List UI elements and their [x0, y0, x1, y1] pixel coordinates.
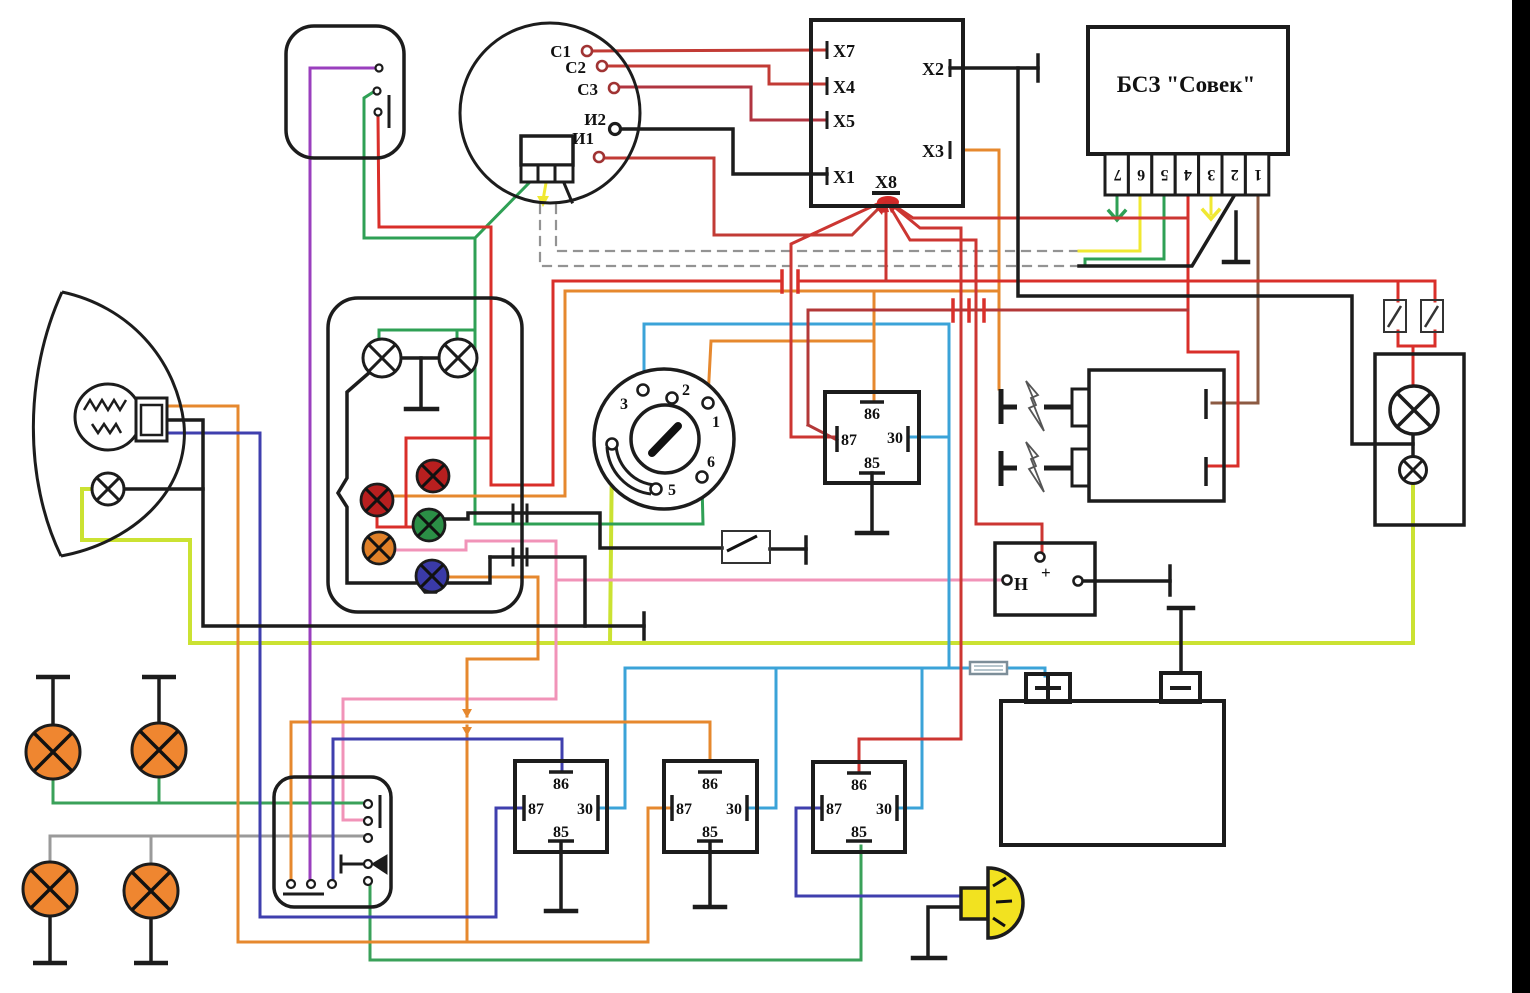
svg-text:БСЗ "Совек": БСЗ "Совек" — [1117, 72, 1256, 97]
svg-text:X7: X7 — [833, 41, 855, 61]
svg-text:1: 1 — [712, 414, 720, 431]
svg-text:86: 86 — [702, 776, 718, 793]
svg-text:C2: C2 — [565, 58, 586, 77]
svg-text:85: 85 — [553, 824, 569, 841]
svg-text:5: 5 — [1161, 166, 1169, 183]
svg-text:87: 87 — [826, 801, 842, 818]
svg-text:85: 85 — [864, 455, 880, 472]
svg-text:6: 6 — [1137, 166, 1145, 183]
svg-text:3: 3 — [1207, 166, 1215, 183]
svg-text:H: H — [1014, 574, 1028, 594]
svg-text:2: 2 — [682, 382, 690, 399]
svg-text:85: 85 — [702, 824, 718, 841]
svg-text:6: 6 — [707, 454, 715, 471]
svg-text:30: 30 — [577, 801, 593, 818]
svg-text:1: 1 — [1254, 166, 1262, 183]
svg-text:30: 30 — [887, 430, 903, 447]
svg-text:87: 87 — [676, 801, 692, 818]
svg-text:C3: C3 — [577, 80, 598, 99]
svg-text:87: 87 — [841, 432, 857, 449]
svg-text:86: 86 — [553, 776, 569, 793]
svg-text:И1: И1 — [572, 129, 594, 148]
svg-text:И2: И2 — [584, 110, 606, 129]
svg-text:87: 87 — [528, 801, 544, 818]
svg-text:X5: X5 — [833, 111, 855, 131]
svg-text:4: 4 — [1184, 166, 1192, 183]
svg-text:3: 3 — [620, 396, 628, 413]
svg-text:X4: X4 — [833, 77, 855, 97]
svg-text:30: 30 — [726, 801, 742, 818]
svg-text:30: 30 — [876, 801, 892, 818]
svg-text:85: 85 — [851, 824, 867, 841]
svg-text:86: 86 — [851, 777, 867, 794]
svg-text:X1: X1 — [833, 167, 855, 187]
svg-text:86: 86 — [864, 406, 880, 423]
svg-text:5: 5 — [668, 482, 676, 499]
svg-text:X3: X3 — [922, 141, 944, 161]
svg-text:7: 7 — [1114, 166, 1122, 183]
svg-text:2: 2 — [1231, 166, 1239, 183]
svg-text:+: + — [1041, 563, 1051, 582]
svg-text:X2: X2 — [922, 59, 944, 79]
svg-text:X8: X8 — [875, 172, 897, 192]
